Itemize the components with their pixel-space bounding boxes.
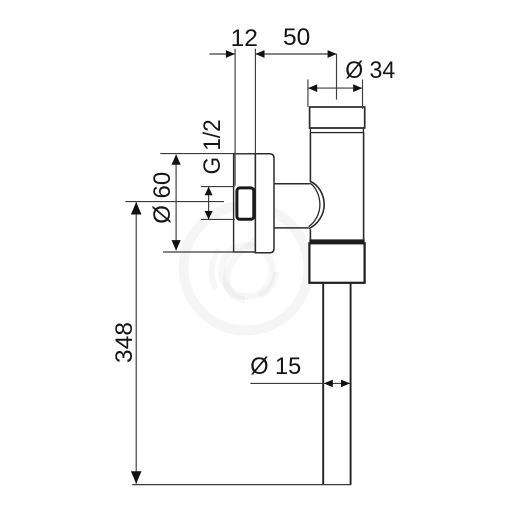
svg-text:Ø 60: Ø 60 — [149, 172, 176, 224]
svg-text:Ø 15: Ø 15 — [250, 353, 301, 380]
svg-text:Ø 34: Ø 34 — [345, 57, 395, 84]
svg-text:50: 50 — [283, 24, 310, 51]
svg-text:348: 348 — [111, 322, 138, 363]
svg-text:G 1/2: G 1/2 — [199, 119, 226, 174]
svg-text:12: 12 — [231, 25, 258, 52]
